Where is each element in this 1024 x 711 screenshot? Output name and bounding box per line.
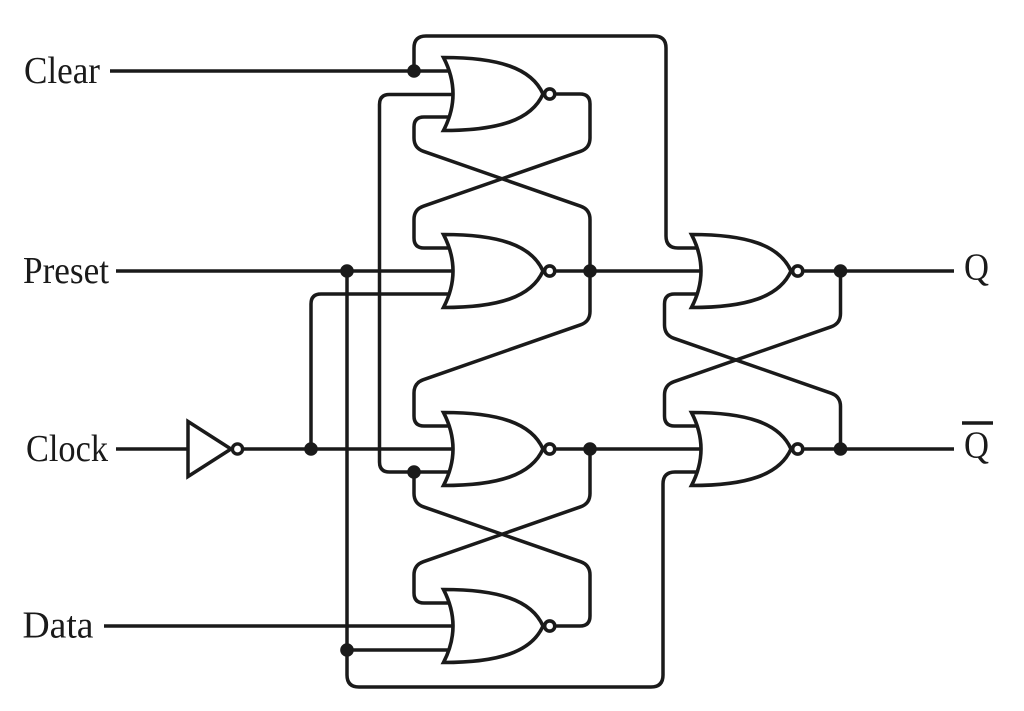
wire Clear to G5 top input (top rail) [414,36,706,248]
wire inverted clock to G3 [244,447,458,451]
svg-text:Q: Q [964,247,989,289]
junction on Qbar output [834,442,848,456]
NOR gate G2 inversion bubble [545,266,555,276]
wire G2 output to G5 [557,269,707,273]
inverter U1 bubble [232,444,242,454]
wire G2 output to G1 bottom input and G3 top input (crossovers) [414,117,590,426]
NOR gate G6 inversion bubble [793,444,803,454]
svg-text:Preset: Preset [23,250,109,292]
junction Preset to G4 bottom input [340,643,354,657]
wire G1 output to G2 top input (crossover) [414,94,590,248]
wire Clock to inverter [116,447,188,451]
wire Q feedback to G6 top input (crossover) [665,271,841,426]
junction on Clear at G1 input [407,64,421,78]
wire G3 output to G6 [557,447,707,451]
wire G3 output to G4 top input (crossover) [414,449,590,603]
wire Q output [805,269,955,273]
wire inverted clock branch to G2 bottom input [311,294,458,449]
junction on Q output [834,264,848,278]
wire G4 output feedback [414,472,590,626]
junction on G2 output [583,264,597,278]
NOR gate G4 body [444,590,544,663]
svg-text:Clock: Clock [26,428,108,470]
NOR gate G3 body [444,413,544,486]
wire Preset branch down [345,271,349,650]
svg-text:Clear: Clear [24,50,100,92]
svg-text:Q: Q [964,425,989,467]
inverter U1 on Clock (triangle) [188,422,231,477]
NOR gate G6 body [692,413,792,486]
wire Clear input [110,69,458,73]
wire Qbar feedback to G5 bottom input (crossover) [665,294,841,449]
svg-text:Data: Data [23,605,94,647]
junction on inverted Clock [304,442,318,456]
wire Preset to G4 bottom input [347,648,458,652]
NOR gate G5 inversion bubble [793,266,803,276]
wire Preset input [116,269,458,273]
NOR gate G1 body [444,58,544,131]
NOR gate G3 inversion bubble [545,444,555,454]
wire Data input [104,624,458,628]
NOR gate G5 body [692,235,792,308]
NOR gate G2 body [444,235,544,308]
wire Qbar output [805,447,955,451]
wire Preset to G6 bottom input (bottom rail) [347,472,706,687]
NOR gate G1 inversion bubble [545,89,555,99]
wire G4 output to G3 bottom and G1 middle inputs [380,95,459,473]
junction on G3 output [583,442,597,456]
junction G4 output to G3 bottom input [407,465,421,479]
junction on Preset [340,264,354,278]
overbar of Qbar label [962,421,993,425]
NOR gate G4 inversion bubble [545,621,555,631]
